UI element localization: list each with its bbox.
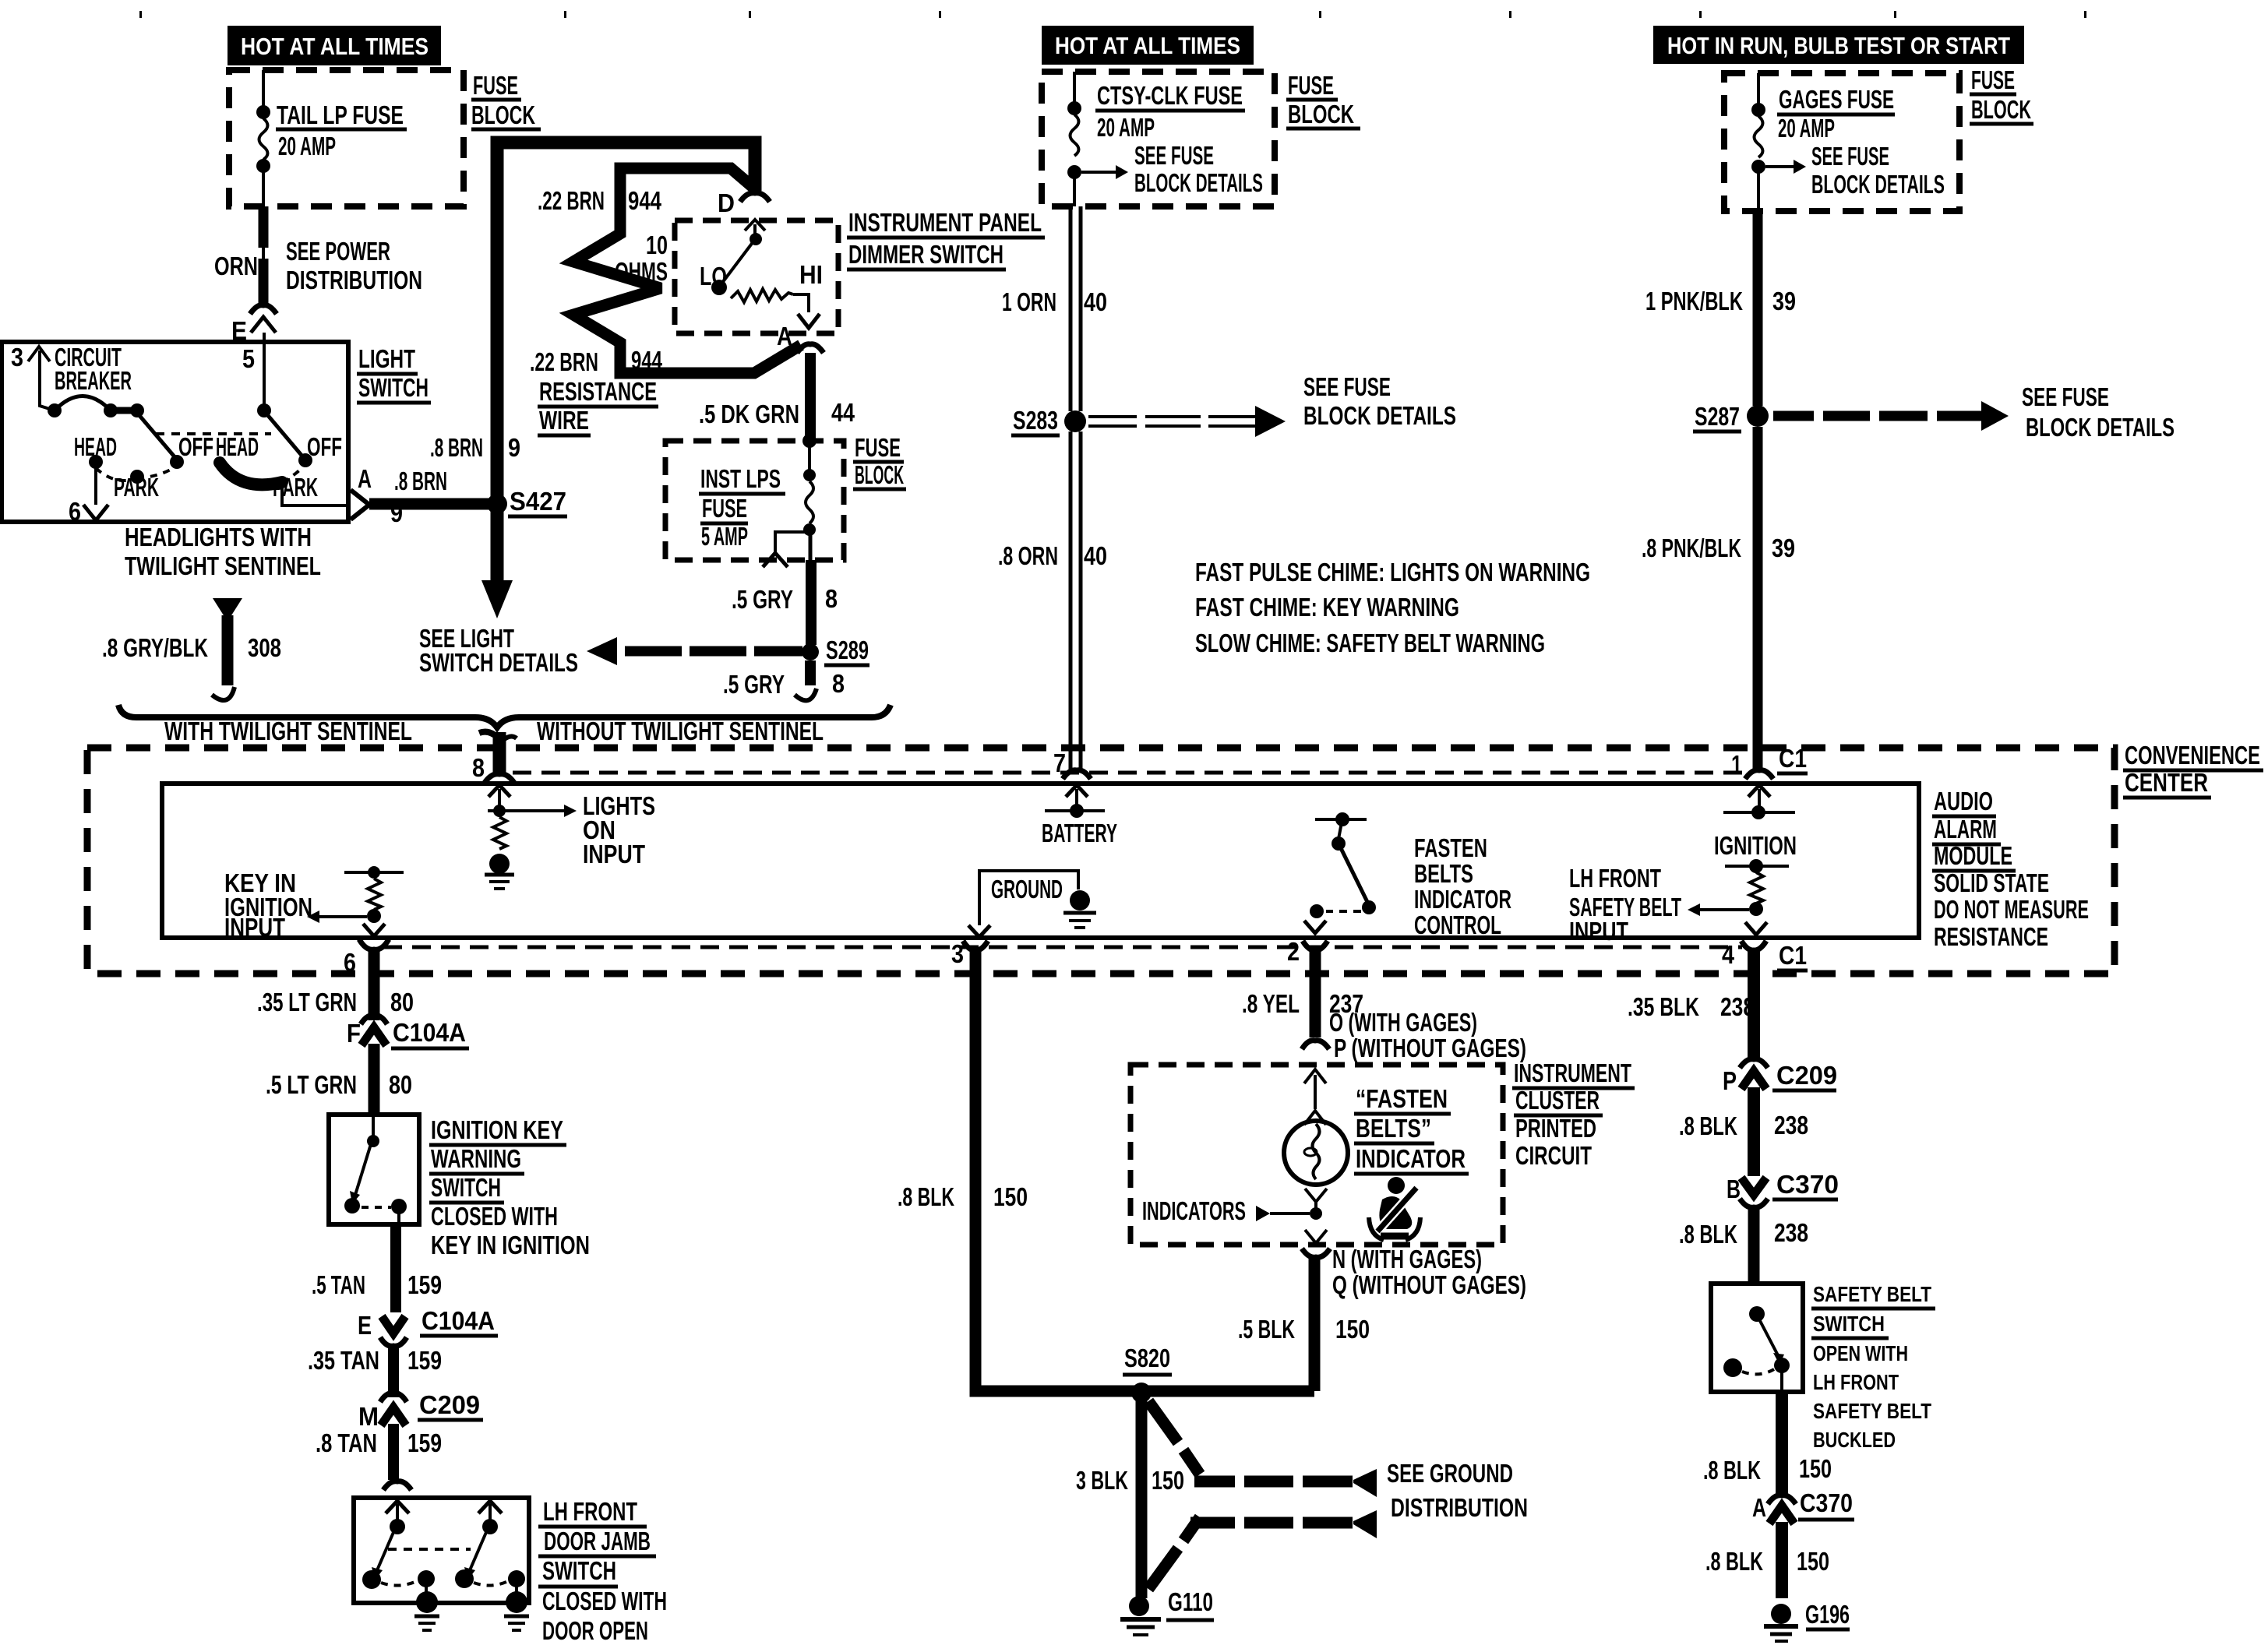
svg-text:.8 BLK: .8 BLK: [1705, 1547, 1763, 1576]
svg-text:A: A: [777, 322, 792, 350]
svg-text:SAFETY BELT: SAFETY BELT: [1813, 1399, 1931, 1423]
svg-text:5: 5: [242, 344, 255, 373]
labels .8 BRN 9 (vertical): [430, 433, 520, 462]
svg-text:SEE FUSE: SEE FUSE: [1303, 372, 1391, 401]
connector F C104A: [347, 1016, 469, 1048]
ruler ticks: [139, 11, 2086, 18]
svg-text:944: 944: [631, 346, 662, 375]
label GAGES FUSE 20 AMP: [1777, 85, 1895, 143]
key in ignition input (module internal): [307, 866, 404, 936]
svg-text:KEY IN IGNITION: KEY IN IGNITION: [431, 1231, 590, 1259]
svg-text:D: D: [718, 188, 735, 217]
instrument cluster dashed box: [1130, 1065, 1503, 1245]
svg-text:1 PNK/BLK: 1 PNK/BLK: [1645, 287, 1743, 315]
svg-text:INPUT: INPUT: [583, 840, 645, 868]
wire ORN to light switch: [259, 206, 269, 305]
wire .5 GRY 8 stub below S289: [723, 660, 845, 700]
svg-text:HOT IN RUN, BULB TEST OR START: HOT IN RUN, BULB TEST OR START: [1667, 32, 2010, 59]
connector P C209: [1723, 1059, 1837, 1095]
svg-text:SOLID STATE: SOLID STATE: [1934, 868, 2049, 897]
svg-text:BLOCK DETAILS: BLOCK DETAILS: [2026, 413, 2175, 442]
svg-text:WITH TWILIGHT SENTINEL: WITH TWILIGHT SENTINEL: [164, 717, 412, 745]
svg-text:10: 10: [646, 231, 668, 259]
svg-text:Q (WITHOUT GAGES): Q (WITHOUT GAGES): [1332, 1270, 1526, 1299]
svg-text:3 BLK: 3 BLK: [1076, 1466, 1128, 1495]
wire .8 BLK 238 (2): [1679, 1206, 1808, 1284]
svg-text:PARK: PARK: [273, 473, 318, 502]
svg-text:SWITCH: SWITCH: [431, 1173, 501, 1202]
light switch box: [2, 342, 348, 522]
splice S820: [1123, 1344, 1172, 1403]
svg-text:M: M: [358, 1402, 379, 1431]
labels .22 BRN 944 lower: [530, 346, 662, 376]
header HOT IN RUN, BULB TEST OR START: [1653, 26, 2024, 64]
ground (module internal): [968, 871, 1096, 937]
svg-text:A: A: [358, 464, 372, 493]
label LH FRONT DOOR JAMB SWITCH CLOSED WITH DOOR OPEN: [538, 1497, 667, 1645]
svg-text:BELTS: BELTS: [1414, 859, 1473, 888]
label 10 OHMS: [615, 231, 668, 286]
svg-text:SEE FUSE: SEE FUSE: [2022, 382, 2109, 411]
svg-text:80: 80: [390, 988, 414, 1016]
label LIGHT SWITCH: [357, 344, 431, 403]
svg-text:150: 150: [993, 1182, 1028, 1211]
door jamb switch right element: [455, 1501, 529, 1630]
svg-text:.8 TAN: .8 TAN: [316, 1428, 377, 1457]
svg-text:40: 40: [1084, 541, 1107, 570]
label RESISTANCE WIRE: [538, 377, 658, 435]
svg-text:A: A: [1752, 1493, 1766, 1522]
fuse block (right) dashed box: [1724, 73, 1959, 211]
label IGNITION KEY WARNING SWITCH CLOSED WITH KEY IN IGNITION: [429, 1115, 590, 1259]
svg-text:C1: C1: [1779, 941, 1807, 970]
svg-text:20 AMP: 20 AMP: [278, 132, 336, 160]
wire .8 BLK 150 below switch: [1703, 1392, 1832, 1494]
svg-text:DOOR JAMB: DOOR JAMB: [544, 1527, 651, 1555]
label INST LPS FUSE 5 AMP: [699, 464, 785, 551]
svg-text:6: 6: [69, 497, 81, 526]
svg-text:PRINTED: PRINTED: [1515, 1114, 1596, 1143]
svg-text:39: 39: [1772, 534, 1795, 562]
svg-text:.8 BRN: .8 BRN: [430, 433, 483, 462]
svg-text:P (WITHOUT GAGES): P (WITHOUT GAGES): [1334, 1034, 1526, 1062]
svg-text:LH FRONT: LH FRONT: [1813, 1370, 1899, 1394]
svg-text:5 AMP: 5 AMP: [701, 522, 748, 551]
indicators arrow: [1142, 1196, 1310, 1225]
svg-text:BLOCK: BLOCK: [855, 460, 904, 489]
svg-text:DISTRIBUTION: DISTRIBUTION: [286, 266, 422, 294]
double-line dashed arrow SEE FUSE BLOCK DETAILS (s283): [1088, 372, 1456, 437]
svg-text:FAST CHIME: KEY WARNING: FAST CHIME: KEY WARNING: [1195, 593, 1459, 622]
svg-text:6: 6: [344, 948, 356, 977]
svg-text:OFF: OFF: [178, 432, 213, 461]
label AUDIO ALARM MODULE SOLID STATE DO NOT MEASURE RESISTANCE: [1932, 787, 2089, 951]
svg-text:.8 GRY/BLK: .8 GRY/BLK: [102, 633, 208, 662]
svg-text:3: 3: [11, 343, 23, 372]
pin 2 connector: [1287, 937, 1328, 966]
svg-text:S820: S820: [1124, 1344, 1170, 1372]
pin 6 connector: [344, 939, 389, 977]
svg-text:LH FRONT: LH FRONT: [543, 1497, 637, 1526]
svg-text:BUCKLED: BUCKLED: [1813, 1428, 1896, 1452]
svg-text:9: 9: [508, 433, 520, 462]
label SAFETY BELT SWITCH OPEN WITH LH FRONT SAFETY BELT BUCKLED: [1811, 1282, 1935, 1452]
PARK output to terminal A: [273, 464, 372, 520]
svg-text:GROUND: GROUND: [991, 875, 1063, 904]
svg-text:C209: C209: [1776, 1061, 1837, 1090]
wire .35 BLK 238 from pin 4: [1628, 950, 1755, 1058]
label FASTEN BELTS INDICATOR CONTROL: [1414, 833, 1511, 939]
circuit breaker: [48, 343, 144, 417]
svg-text:S283: S283: [1013, 406, 1058, 435]
svg-text:7: 7: [1053, 749, 1066, 777]
wire .35 TAN 159: [308, 1345, 442, 1397]
svg-text:LO: LO: [700, 262, 727, 291]
label LH FRONT SAFETY BELT INPUT: [1569, 864, 1681, 946]
svg-text:OHMS: OHMS: [615, 257, 668, 286]
svg-text:.5 LT GRN: .5 LT GRN: [266, 1070, 357, 1099]
wire .8 GRY/BLK 308 stub: [102, 598, 281, 700]
svg-text:INDICATOR: INDICATOR: [1414, 885, 1511, 914]
right switch heavy wiper (HEAD position): [220, 463, 303, 484]
svg-text:8: 8: [832, 669, 845, 698]
dashed branch lower to SEE GROUND DISTRIBUTION: [1148, 1510, 1377, 1589]
door jamb switch left element: [362, 1501, 439, 1630]
svg-text:SEE GROUND: SEE GROUND: [1387, 1459, 1513, 1488]
fuse block INST LPS dashed box: [665, 441, 844, 560]
svg-text:“FASTEN: “FASTEN: [1356, 1084, 1448, 1113]
splice S287: [1693, 402, 1769, 432]
label FUSE BLOCK (ctsy): [1286, 71, 1360, 129]
wire .35 LT GRN 80: [257, 950, 414, 1020]
svg-text:SWITCH: SWITCH: [1813, 1312, 1885, 1336]
connector B C370: [1727, 1170, 1839, 1207]
safety belt switch box: [1711, 1284, 1803, 1392]
ignition key warning switch box: [329, 1115, 419, 1224]
svg-text:.8 BLK: .8 BLK: [1703, 1456, 1761, 1485]
svg-text:.22 BRN: .22 BRN: [538, 186, 605, 215]
splice S427: [487, 487, 567, 516]
connector E at light switch: [231, 305, 277, 345]
label KEY IN IGNITION INPUT: [224, 868, 312, 942]
node at box top: [802, 434, 817, 448]
svg-text:SAFETY BELT: SAFETY BELT: [1813, 1282, 1931, 1306]
svg-text:OFF: OFF: [307, 432, 342, 461]
svg-text:SLOW CHIME: SAFETY BELT WARNIN: SLOW CHIME: SAFETY BELT WARNING: [1195, 629, 1545, 657]
svg-text:INPUT: INPUT: [224, 913, 285, 942]
ground G196: [1764, 1600, 1850, 1641]
svg-text:C209: C209: [419, 1390, 480, 1419]
pin 4 connector C1: [1722, 940, 1808, 970]
svg-text:.5 TAN: .5 TAN: [312, 1270, 365, 1299]
svg-text:C104A: C104A: [422, 1306, 495, 1335]
svg-text:CONTROL: CONTROL: [1414, 911, 1501, 939]
fuse INST LPS 5 AMP: [763, 441, 816, 567]
svg-text:40: 40: [1084, 287, 1107, 316]
fuse CTSY-CLK 20A: [1067, 72, 1081, 206]
connector A of dimmer: [777, 322, 824, 353]
svg-text:159: 159: [407, 1270, 442, 1299]
svg-text:SEE FUSE: SEE FUSE: [1811, 142, 1889, 171]
svg-text:159: 159: [407, 1428, 442, 1457]
svg-text:S289: S289: [826, 636, 869, 664]
label "FASTEN BELTS" INDICATOR: [1354, 1084, 1469, 1174]
ignition / LH front safety belt input (module internal): [1688, 785, 1797, 935]
dashed wire to SEE LIGHT SWITCH DETAILS arrow: [419, 624, 802, 677]
terminal 6 arrow: [69, 468, 108, 526]
svg-text:BLOCK DETAILS: BLOCK DETAILS: [1134, 168, 1263, 197]
svg-text:ALARM: ALARM: [1934, 815, 1997, 844]
label ORN / SEE POWER DISTRIBUTION: [214, 237, 422, 294]
wire .8 TAN 159: [316, 1424, 442, 1480]
pin 7 connector: [1053, 749, 1091, 779]
svg-text:G110: G110: [1168, 1587, 1213, 1616]
svg-text:ORN: ORN: [214, 252, 258, 280]
brace with/without twilight sentinel: [118, 705, 891, 745]
svg-text:.5 BLK: .5 BLK: [1238, 1315, 1295, 1344]
fasten belts indicator control (module internal): [1304, 812, 1376, 933]
svg-text:MODULE: MODULE: [1934, 841, 2012, 870]
fuse GAGES 20A: [1751, 73, 1765, 211]
svg-text:CENTER: CENTER: [2125, 768, 2208, 797]
svg-text:TAIL LP FUSE: TAIL LP FUSE: [277, 100, 404, 129]
svg-text:HI: HI: [799, 260, 823, 289]
svg-text:9: 9: [390, 498, 403, 527]
left switch blade to OFF: [74, 413, 213, 502]
audio alarm module solid box: [162, 784, 1919, 938]
svg-text:44: 44: [831, 398, 855, 427]
header HOT AT ALL TIMES (middle): [1042, 26, 1254, 65]
svg-text:HOT AT ALL TIMES: HOT AT ALL TIMES: [241, 33, 429, 60]
label FUSE BLOCK (gages): [1970, 65, 2033, 124]
label FUSE BLOCK (inst lps): [853, 433, 906, 489]
label HEADLIGHTS WITH TWILIGHT SENTINEL: [125, 523, 321, 580]
svg-text:SWITCH: SWITCH: [358, 373, 429, 402]
arrow SEE FUSE BLOCK DETAILS (gages): [1765, 142, 1945, 199]
svg-text:FUSE: FUSE: [1971, 65, 2015, 94]
battery input (module internal): [1042, 785, 1117, 847]
arrow SEE FUSE BLOCK DETAILS (ctsy): [1081, 141, 1263, 197]
ground G110: [1120, 1587, 1214, 1635]
svg-text:.35 LT GRN: .35 LT GRN: [257, 988, 357, 1016]
thick dashed arrow SEE FUSE BLOCK DETAILS (s287): [1773, 382, 2175, 442]
wire hook from brace to pin 8: [479, 732, 517, 776]
svg-text:B: B: [1727, 1175, 1741, 1203]
svg-text:INSTRUMENT: INSTRUMENT: [1514, 1059, 1631, 1087]
LH front door jamb switch box: [354, 1498, 529, 1603]
svg-text:80: 80: [389, 1070, 412, 1099]
svg-text:.5 GRY: .5 GRY: [732, 585, 793, 614]
svg-text:BATTERY: BATTERY: [1042, 819, 1117, 847]
svg-text:150: 150: [1152, 1466, 1184, 1495]
wire .5 GRY 8 above S289: [732, 560, 838, 645]
terminal 5 / right switch: [216, 333, 342, 467]
svg-text:FUSE: FUSE: [855, 433, 901, 462]
svg-text:FASTEN: FASTEN: [1414, 833, 1487, 862]
svg-text:LIGHT: LIGHT: [358, 344, 415, 373]
lamp output to N/Q: [1302, 1230, 1330, 1257]
convenience center outer dashed box: [87, 748, 2115, 974]
svg-text:S287: S287: [1695, 402, 1740, 431]
label SEE GROUND DISTRIBUTION: [1387, 1459, 1528, 1522]
svg-text:.8 PNK/BLK: .8 PNK/BLK: [1642, 534, 1741, 562]
fuse TAIL LP 20A: [256, 70, 270, 206]
svg-text:.22 BRN: .22 BRN: [530, 347, 598, 376]
svg-text:CTSY-CLK FUSE: CTSY-CLK FUSE: [1097, 81, 1243, 110]
svg-text:C1: C1: [1779, 744, 1807, 773]
dimmer internals: pivot, LO wiper, resistor, HI: [700, 220, 823, 328]
svg-text:RESISTANCE: RESISTANCE: [1934, 922, 2048, 951]
wire .8 BLK 150 to G196: [1705, 1522, 1829, 1598]
resistance wire zigzag .22 BRN 944: [573, 168, 801, 373]
svg-text:150: 150: [1335, 1315, 1370, 1344]
label INSTRUMENT CLUSTER PRINTED CIRCUIT: [1512, 1059, 1635, 1170]
svg-text:P: P: [1723, 1066, 1737, 1095]
door jamb mechanical linkage dashed: [388, 1548, 471, 1551]
wire 3 BLK 150 down to G110: [1076, 1398, 1184, 1598]
wire .5 LT GRN 80: [266, 1044, 412, 1115]
label INSTRUMENT PANEL DIMMER SWITCH: [847, 208, 1045, 269]
svg-text:INDICATOR: INDICATOR: [1356, 1144, 1466, 1173]
svg-text:150: 150: [1797, 1547, 1829, 1576]
svg-text:IGNITION: IGNITION: [1714, 831, 1797, 860]
connector D of dimmer switch: [718, 188, 770, 217]
svg-text:238: 238: [1774, 1218, 1808, 1247]
svg-text:FUSE: FUSE: [1288, 71, 1334, 100]
svg-text:OPEN WITH: OPEN WITH: [1813, 1341, 1908, 1365]
svg-text:BLOCK DETAILS: BLOCK DETAILS: [1303, 401, 1456, 430]
label LIGHTS ON INPUT: [583, 791, 655, 868]
svg-text:FAST PULSE CHIME: LIGHTS ON W: FAST PULSE CHIME: LIGHTS ON WARNING: [1195, 558, 1590, 586]
svg-text:BLOCK DETAILS: BLOCK DETAILS: [1811, 170, 1945, 199]
svg-text:238: 238: [1774, 1111, 1808, 1140]
svg-text:20 AMP: 20 AMP: [1097, 113, 1155, 142]
svg-text:BLOCK: BLOCK: [1288, 100, 1354, 129]
svg-text:.8 BRN: .8 BRN: [394, 467, 447, 495]
svg-text:RESISTANCE: RESISTANCE: [539, 377, 657, 406]
labels .8 BRN 9 (horizontal): [390, 467, 447, 527]
dashed branch upper to SEE GROUND DISTRIBUTION: [1148, 1401, 1377, 1497]
wire .5 DK GRN 44: [699, 353, 855, 441]
svg-text:C370: C370: [1800, 1488, 1853, 1517]
svg-text:WITHOUT TWILIGHT SENTINEL: WITHOUT TWILIGHT SENTINEL: [537, 717, 824, 745]
svg-text:SEE POWER: SEE POWER: [286, 237, 390, 266]
svg-text:N (WITH GAGES): N (WITH GAGES): [1332, 1245, 1482, 1273]
svg-text:GAGES FUSE: GAGES FUSE: [1779, 85, 1894, 114]
svg-text:159: 159: [407, 1346, 442, 1375]
header HOT AT ALL TIMES (left): [228, 26, 441, 65]
svg-text:1: 1: [1731, 750, 1742, 779]
svg-text:WIRE: WIRE: [539, 406, 589, 435]
mechanical linkage dashed: [156, 432, 271, 435]
svg-text:CLOSED WITH: CLOSED WITH: [431, 1202, 558, 1231]
wire .8 PNK/BLK 39: [1642, 427, 1795, 770]
fuse block (middle) dashed box: [1042, 72, 1275, 206]
svg-text:8: 8: [825, 584, 838, 613]
wire .8 BLK 238: [1679, 1087, 1808, 1176]
fuse block (left) dashed box: [229, 70, 464, 206]
svg-text:DOOR OPEN: DOOR OPEN: [542, 1616, 648, 1645]
svg-text:INDICATORS: INDICATORS: [1142, 1196, 1246, 1225]
double-line wire .8 ORN 40: [998, 432, 1107, 770]
connector into instrument cluster: [1302, 1041, 1329, 1049]
svg-text:E: E: [358, 1311, 372, 1340]
svg-text:2: 2: [1287, 937, 1300, 966]
svg-text:.5 GRY: .5 GRY: [723, 670, 785, 699]
label FUSE BLOCK (left): [471, 71, 541, 129]
label N (WITH GAGES) / Q (WITHOUT GAGES): [1332, 1245, 1526, 1299]
svg-text:1 ORN: 1 ORN: [1002, 287, 1056, 316]
svg-text:.8 BLK: .8 BLK: [898, 1182, 954, 1211]
connector at door jamb switch: [383, 1481, 411, 1490]
inner dashed connector row (bottom): [383, 946, 1742, 949]
label CTSY-CLK FUSE 20 AMP: [1095, 81, 1245, 142]
svg-text:.8 BLK: .8 BLK: [1679, 1111, 1737, 1140]
wire .5 BLK 150: [1238, 1256, 1370, 1391]
labels .22 BRN 944 upper: [538, 186, 662, 215]
connector M C209: [358, 1390, 483, 1431]
svg-text:INSTRUMENT PANEL: INSTRUMENT PANEL: [848, 208, 1042, 237]
chime legend text: [1195, 558, 1590, 657]
svg-text:CONVENIENCE: CONVENIENCE: [2125, 741, 2260, 770]
svg-text:DISTRIBUTION: DISTRIBUTION: [1391, 1493, 1528, 1522]
svg-text:IGNITION KEY: IGNITION KEY: [431, 1115, 563, 1144]
svg-text:G196: G196: [1805, 1600, 1850, 1629]
svg-text:INPUT: INPUT: [1569, 917, 1628, 946]
svg-text:SWITCH: SWITCH: [542, 1556, 616, 1585]
label CONVENIENCE CENTER: [2123, 741, 2263, 798]
svg-text:.8 YEL: .8 YEL: [1242, 989, 1300, 1018]
svg-text:150: 150: [1799, 1454, 1832, 1483]
splice S289: [802, 636, 869, 665]
wire .8 BRN from A to S427: [369, 498, 492, 510]
svg-text:DIMMER SWITCH: DIMMER SWITCH: [848, 240, 1003, 269]
svg-text:AUDIO: AUDIO: [1934, 787, 1993, 815]
connector A C370: [1752, 1488, 1854, 1523]
svg-text:.5 DK GRN: .5 DK GRN: [699, 400, 799, 428]
svg-text:DO NOT MEASURE: DO NOT MEASURE: [1934, 895, 2089, 924]
svg-text:HOT AT ALL TIMES: HOT AT ALL TIMES: [1055, 32, 1240, 59]
svg-text:.35 BLK: .35 BLK: [1628, 992, 1699, 1021]
svg-text:SEE FUSE: SEE FUSE: [1134, 141, 1214, 170]
inner dashed connector row (top): [513, 771, 1747, 775]
double-line wire 1 ORN 40: [1002, 206, 1107, 411]
connector E C104A: [358, 1306, 498, 1346]
svg-text:238: 238: [1720, 992, 1755, 1021]
seat belt icon: [1369, 1177, 1420, 1240]
svg-text:FUSE: FUSE: [702, 494, 747, 523]
svg-text:BLOCK: BLOCK: [1971, 95, 2031, 124]
svg-text:S427: S427: [510, 487, 566, 516]
svg-text:39: 39: [1772, 287, 1796, 315]
pin 8 connector: [472, 753, 514, 783]
svg-text:.8 ORN: .8 ORN: [998, 541, 1058, 570]
label O (WITH GAGES) / P (WITHOUT GAGES): [1329, 1008, 1526, 1062]
svg-text:HEAD: HEAD: [216, 432, 259, 461]
svg-text:LH FRONT: LH FRONT: [1569, 864, 1661, 893]
svg-text:O (WITH GAGES): O (WITH GAGES): [1329, 1008, 1477, 1037]
svg-text:CLUSTER: CLUSTER: [1515, 1086, 1600, 1115]
wire 1 PNK/BLK 39: [1645, 211, 1796, 406]
svg-text:SWITCH DETAILS: SWITCH DETAILS: [419, 648, 578, 677]
svg-text:WARNING: WARNING: [431, 1144, 521, 1173]
svg-text:FUSE: FUSE: [473, 71, 518, 100]
svg-text:4: 4: [1722, 940, 1735, 969]
svg-text:.8 BLK: .8 BLK: [1679, 1220, 1737, 1249]
wire .8 BLK 150 from pin 3 to S820 run: [898, 950, 1314, 1391]
wire .8 BRN vertical + top run to dimmer D: [497, 143, 755, 504]
svg-text:CIRCUIT: CIRCUIT: [1515, 1141, 1592, 1170]
